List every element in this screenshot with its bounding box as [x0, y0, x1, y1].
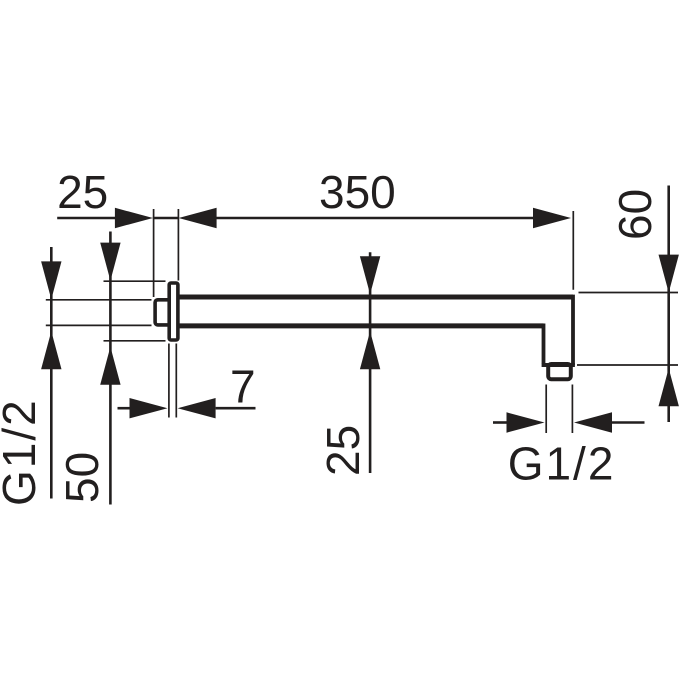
svg-text:G1/2: G1/2: [508, 438, 616, 490]
svg-text:25: 25: [317, 425, 369, 476]
extension line: arm top level, horizontal right: [579, 292, 679, 294]
extension line: stub bottom, horizontal left: [46, 324, 152, 326]
wall thread stub G1/2 (left connector behind flange): [155, 300, 173, 325]
outlet nozzle G1/2: [548, 364, 571, 379]
dimension 50 (left): vertical line and arrows: [109, 232, 112, 505]
extension line: stub left face (wall plane), vertical top: [153, 209, 155, 297]
extension line: flange left face, vertical below: [168, 344, 170, 418]
dimension G1/2 (bottom right): line and arrows: [493, 421, 508, 424]
svg-text:G1/2: G1/2: [0, 398, 45, 506]
dimension G1/2 (left): vertical line and arrows: [50, 247, 53, 499]
extension line: stub top, horizontal left: [46, 299, 152, 301]
svg-text:350: 350: [319, 166, 396, 218]
shower arm tube: top line and outer right elbow edge: [180, 295, 574, 300]
extension line: flange right face, vertical top: [177, 209, 179, 281]
extension line: flange right face, vertical below: [175, 344, 177, 418]
extension line: flange top, horizontal left: [104, 280, 166, 282]
elbow shoulder line: [542, 363, 575, 367]
dimension 25 (top): line and arrows: [57, 217, 117, 220]
svg-text:50: 50: [56, 452, 108, 503]
dimension 7 (flange thickness): line and arrows: [118, 407, 132, 410]
svg-text:60: 60: [609, 189, 661, 240]
extension line: flange bottom, horizontal left: [104, 340, 166, 342]
dimension 25 (middle): vertical line and arrows: [369, 252, 372, 473]
svg-text:25: 25: [57, 166, 108, 218]
extension line: nozzle right face, vertical below: [571, 385, 573, 434]
extension line: nozzle shoulder level, horizontal right: [577, 364, 678, 366]
svg-text:7: 7: [230, 361, 256, 413]
wall flange plate: [169, 283, 178, 340]
extension line: arm right outer face, vertical top: [572, 211, 574, 290]
dimension 60 (right): vertical line and arrows: [667, 186, 670, 423]
shower arm tube: bottom line and inner elbow edge: [180, 323, 544, 328]
extension line: nozzle left face, vertical below: [545, 385, 547, 434]
dimension 350 (top): line and right arrow: [214, 217, 534, 220]
